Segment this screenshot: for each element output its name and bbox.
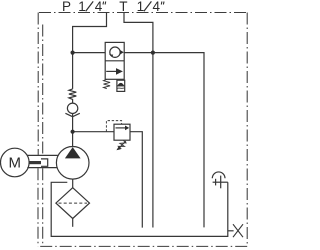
svg-text:4: 4: [95, 0, 103, 14]
svg-text:1: 1: [78, 0, 86, 14]
svg-text:1: 1: [137, 0, 145, 14]
svg-text:4: 4: [153, 0, 161, 14]
svg-text:P: P: [62, 0, 71, 14]
svg-text:T: T: [119, 0, 127, 14]
svg-text:M: M: [9, 155, 22, 172]
